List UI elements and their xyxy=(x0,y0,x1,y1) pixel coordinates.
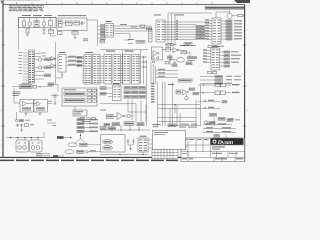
inner header text xyxy=(64,89,76,90)
ground xyxy=(54,96,57,105)
label above U20 xyxy=(140,136,147,137)
wires M lower xyxy=(113,101,146,123)
capacitor C6 xyxy=(20,124,22,128)
top-right corner tab xyxy=(234,0,250,3)
gate U18 xyxy=(117,113,125,120)
second row wire with junctions xyxy=(100,125,150,130)
pin stubs left of U17 xyxy=(106,88,113,97)
bottom rail xyxy=(100,152,148,155)
motor can M1 xyxy=(16,140,29,152)
notes text block xyxy=(9,5,44,11)
vertical bus xyxy=(51,42,56,84)
wires to boxes xyxy=(35,60,45,76)
label U10 xyxy=(106,51,115,52)
input chain label box xyxy=(20,85,33,89)
label row xyxy=(180,45,196,46)
wire chain xyxy=(12,86,52,87)
connector J3 body xyxy=(29,50,35,83)
label xyxy=(212,46,219,47)
small boxes column inside xyxy=(87,90,96,103)
wire below U7 xyxy=(56,72,63,78)
cap row 2 xyxy=(198,107,220,109)
left pin wires with labels xyxy=(205,19,212,39)
ground xyxy=(26,35,29,37)
resistor R14 xyxy=(168,56,173,59)
drop wires into cans xyxy=(18,138,38,141)
row2 boxes xyxy=(100,127,116,130)
IC U4 xyxy=(156,20,165,42)
label above xyxy=(22,82,30,85)
notes box (empty rectangle) xyxy=(153,131,186,150)
label U3 xyxy=(106,21,112,22)
big frame box xyxy=(62,88,97,106)
IC U9 (dual column) xyxy=(93,55,101,85)
box next 2 xyxy=(77,150,101,153)
shield box U2 xyxy=(57,18,87,31)
wire rows right of U3 xyxy=(114,26,153,34)
ground xyxy=(39,112,42,115)
label box xyxy=(48,83,54,86)
resistor R15 xyxy=(186,62,192,65)
ground xyxy=(43,32,46,35)
driver box xyxy=(107,115,114,119)
label rows xyxy=(153,124,161,127)
junction dot xyxy=(174,62,176,64)
relay oval K2 xyxy=(103,146,113,150)
label boxes above logo xyxy=(227,119,240,121)
wire row 2 xyxy=(203,131,236,132)
resistor R7 xyxy=(58,32,63,35)
resistor R4 xyxy=(26,29,29,34)
amp stage box A2 xyxy=(34,100,48,113)
label xyxy=(154,14,184,17)
net labels right of registers xyxy=(142,57,147,68)
label box pair 2 xyxy=(45,66,51,69)
capacitor C8 xyxy=(132,139,134,146)
crystal Y1 xyxy=(59,20,63,28)
IC U3 xyxy=(105,24,114,38)
small box xyxy=(147,28,152,30)
ground xyxy=(20,127,23,132)
right stubs of U20 xyxy=(148,140,153,148)
top row parts xyxy=(104,123,110,126)
scan edge artifact xyxy=(0,0,40,3)
bottom parts row xyxy=(80,117,96,122)
transistor pair Q7 xyxy=(51,94,59,98)
signal row 2 xyxy=(66,60,84,63)
wire xyxy=(62,22,85,24)
resistor R11 xyxy=(33,85,36,88)
junction dot xyxy=(169,59,170,60)
gate U15A xyxy=(173,48,179,53)
misc small parts xyxy=(165,62,177,67)
label row right of notes box xyxy=(179,127,197,128)
sheet border frame xyxy=(0,0,245,161)
label box column xyxy=(77,119,98,133)
pin stubs register bank xyxy=(82,56,140,82)
paper background xyxy=(0,0,250,165)
label above U17 xyxy=(113,83,120,84)
IC U17 xyxy=(113,85,122,101)
wire under C bundle xyxy=(124,34,130,41)
label U12 xyxy=(125,51,134,52)
label boxes xyxy=(189,88,199,95)
gate U6B xyxy=(51,64,56,68)
capacitor C4 xyxy=(152,62,155,63)
vco oval Q6 xyxy=(177,58,185,63)
below frame: driver box xyxy=(73,106,87,116)
label xyxy=(168,84,174,85)
resistor R5 xyxy=(49,30,54,34)
label on wire xyxy=(120,24,137,28)
section wire xyxy=(100,104,136,122)
label boxes right xyxy=(188,57,197,62)
transistor Q3 xyxy=(227,11,238,19)
connector pin labels J1 xyxy=(98,25,106,39)
arrow input xyxy=(7,137,13,139)
below U5 parts xyxy=(208,46,224,48)
wires I xyxy=(163,50,191,65)
bus over registers xyxy=(100,50,148,127)
wire stubs right of J3 xyxy=(35,53,46,80)
wire xyxy=(51,26,57,37)
wire row 0 xyxy=(203,123,232,124)
lower bus wires xyxy=(151,62,155,84)
shield outline xyxy=(19,18,57,28)
wire row 1 xyxy=(203,127,236,128)
logic cluster: box xyxy=(176,90,181,94)
lower wire rows J xyxy=(200,75,241,84)
resistor R2 xyxy=(34,18,39,28)
node VCC bus xyxy=(19,17,57,19)
filter box xyxy=(181,51,187,54)
label pair xyxy=(83,39,88,42)
fuse row 1 xyxy=(198,83,240,86)
revision strip xyxy=(205,6,245,9)
gate U19 xyxy=(183,90,189,96)
osc box U14 xyxy=(152,47,163,60)
small box above logo xyxy=(214,135,226,139)
transistor Q10 xyxy=(152,57,159,59)
connector pin rows left xyxy=(151,83,155,102)
gate U6A xyxy=(51,57,56,61)
box xyxy=(168,124,176,127)
top zone ticks and numbers xyxy=(16,2,212,5)
left pin stubs of J3 xyxy=(23,53,29,80)
fuse row 2 xyxy=(198,91,240,94)
ground xyxy=(128,145,134,151)
connector J3 pin dashes xyxy=(29,52,34,83)
long bar element 1 xyxy=(64,92,85,96)
capacitor C1 xyxy=(43,29,46,33)
label cluster lower xyxy=(128,39,145,44)
resistor R9 xyxy=(238,14,245,17)
pin labels stack xyxy=(13,92,21,97)
wire bus right xyxy=(87,20,98,46)
IC U11 xyxy=(113,55,121,85)
IC U12 xyxy=(123,55,131,85)
oval lamp DS1 xyxy=(68,143,77,147)
title block text smudges xyxy=(182,138,187,141)
box next xyxy=(80,143,101,146)
parts below xyxy=(100,40,105,43)
capacitor C7 xyxy=(127,139,129,146)
bottom zone strip xyxy=(0,158,178,162)
label box pair xyxy=(45,58,51,61)
IC U20 xyxy=(138,138,148,152)
revision table grid xyxy=(152,149,178,158)
capacitor C2 xyxy=(82,21,83,25)
label boxes left xyxy=(100,87,106,90)
transistor Q9 xyxy=(181,92,189,100)
wire to right xyxy=(176,124,200,126)
title block grid xyxy=(181,144,245,146)
ground xyxy=(74,37,77,40)
transistor Q8 xyxy=(125,114,130,117)
relay oval K1 xyxy=(103,140,113,144)
signal rows with labels xyxy=(156,69,178,78)
resistor R6 xyxy=(74,21,80,25)
resistor R12 xyxy=(25,124,35,127)
bus wires mid-low xyxy=(128,82,177,126)
frame zone ticks xyxy=(1,45,247,126)
ground xyxy=(25,112,28,115)
label row xyxy=(58,14,86,17)
vertical feeds xyxy=(201,85,215,126)
relay frame xyxy=(101,135,126,153)
below U16 small boxes xyxy=(208,70,217,74)
connector J2 stub column xyxy=(149,29,153,42)
vertical bus lines xyxy=(158,82,166,126)
parts right of amp cluster xyxy=(47,120,56,127)
label row above bus xyxy=(22,14,52,17)
title block outline xyxy=(181,138,245,161)
transistor Q2 xyxy=(42,18,46,29)
transistor Q1 xyxy=(28,18,32,29)
IC U13 xyxy=(132,55,140,85)
right pins of U16 with labels xyxy=(220,51,242,67)
signal row 3 xyxy=(66,64,84,67)
motor can M2 xyxy=(30,140,43,152)
lower label xyxy=(100,110,106,111)
transistor Q5 xyxy=(35,66,42,69)
wire down-left xyxy=(18,18,20,51)
lower parts of D xyxy=(165,43,192,47)
resistor R10 xyxy=(166,48,171,52)
wire rows to right xyxy=(165,22,210,40)
label grid right xyxy=(196,26,205,40)
resistor R8 xyxy=(140,25,145,27)
small parts left xyxy=(53,155,64,157)
long bar element 2 xyxy=(64,99,85,103)
IC U8 (dual column) xyxy=(84,55,92,85)
vertical bus to PLL xyxy=(168,13,212,44)
capacitor C5 xyxy=(16,124,18,128)
left pins of U16 xyxy=(203,49,211,62)
IC U8 label xyxy=(85,52,93,53)
wire down to amps xyxy=(14,88,20,103)
IC U7 xyxy=(58,52,66,72)
pin strip column xyxy=(177,20,178,40)
IC U16 xyxy=(211,48,220,70)
wire between amps xyxy=(27,101,53,104)
transistor Q4 xyxy=(35,58,42,61)
wire to transistor xyxy=(216,11,230,19)
oval lamp DS2 xyxy=(65,150,74,154)
label grid right of U17 xyxy=(124,87,146,99)
capacitor C3 xyxy=(72,31,78,38)
resistor R1 xyxy=(23,18,26,29)
resistor R3 xyxy=(49,18,53,26)
side zone letters xyxy=(0,29,248,147)
cap row 1 xyxy=(198,100,227,103)
right pin wires with label boxes xyxy=(221,20,242,40)
label rows bottom right of P xyxy=(36,153,50,156)
left pin labels of J3 xyxy=(19,52,23,74)
inverter U2A xyxy=(66,21,73,26)
TP circle xyxy=(204,118,234,124)
test point labels xyxy=(210,114,226,121)
long label box xyxy=(178,79,192,82)
lower parts row xyxy=(15,112,30,122)
signal row 1 xyxy=(66,56,84,59)
wire row lower xyxy=(158,118,197,122)
junction wire xyxy=(74,133,87,144)
IC U10 xyxy=(104,55,112,85)
label box 3 xyxy=(45,74,51,77)
IC U5 xyxy=(212,18,221,44)
left pin stubs xyxy=(100,26,105,35)
amp stage box A1 xyxy=(20,100,34,113)
wire from label xyxy=(54,84,59,92)
long wires xyxy=(158,100,201,126)
bus wire xyxy=(10,132,44,138)
Dysan logo xyxy=(211,138,244,145)
sensor label dark xyxy=(57,136,72,139)
resistor R13 xyxy=(166,44,177,46)
